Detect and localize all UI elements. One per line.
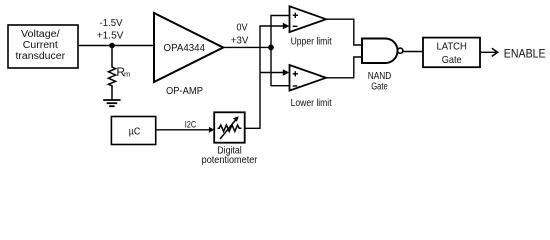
svg-text:Voltage/: Voltage/ bbox=[21, 29, 60, 40]
svg-text:Upper limit: Upper limit bbox=[291, 36, 332, 47]
svg-text:OPA4344: OPA4344 bbox=[164, 42, 206, 54]
svg-text:OP-AMP: OP-AMP bbox=[166, 85, 203, 97]
comparator upper limit bbox=[290, 6, 327, 32]
svg-text:Gate: Gate bbox=[371, 81, 388, 92]
comparator lower limit bbox=[290, 65, 327, 91]
svg-text:transducer: transducer bbox=[16, 51, 66, 62]
op-amp U1 OPA4344 bbox=[154, 13, 223, 82]
wire NAND output to latch bbox=[403, 51, 423, 53]
svg-text:m: m bbox=[124, 69, 130, 78]
node junction at Rm tap bbox=[109, 43, 115, 49]
wire op-amp output to signal node bbox=[222, 46, 271, 48]
wire latch output with arrowhead bbox=[480, 48, 498, 56]
label NAND Gate bbox=[368, 71, 392, 92]
svg-text:0V: 0V bbox=[237, 23, 248, 34]
wire threshold branch to lower comparator bbox=[260, 72, 285, 74]
ground bbox=[103, 100, 120, 106]
transducer block bbox=[8, 25, 78, 68]
wire transducer to op-amp input bbox=[78, 45, 154, 47]
svg-text:LATCH: LATCH bbox=[436, 41, 467, 53]
wire I2C from microcontroller to potentiometer bbox=[156, 127, 215, 133]
arrowhead into lower comparator plus input bbox=[283, 69, 290, 76]
microcontroller block bbox=[111, 117, 155, 145]
svg-text:ENABLE: ENABLE bbox=[504, 46, 546, 60]
svg-text:Lower limit: Lower limit bbox=[291, 98, 332, 109]
digital potentiometer bbox=[214, 112, 245, 142]
svg-text:+1.5V: +1.5V bbox=[97, 31, 124, 42]
wire lower comparator output to NAND bbox=[326, 57, 362, 78]
svg-text:+3V: +3V bbox=[231, 35, 249, 46]
wire upper comparator output to NAND bbox=[326, 19, 362, 45]
svg-text:Current: Current bbox=[23, 40, 58, 51]
label Digital potentiometer bbox=[202, 146, 258, 167]
arrowhead into upper comparator minus input bbox=[283, 23, 290, 30]
svg-text:µC: µC bbox=[129, 126, 141, 138]
wire threshold rail from potentiometer to comparator inputs bbox=[245, 26, 285, 128]
node junction signal rail bbox=[268, 45, 274, 51]
svg-text:I2C: I2C bbox=[185, 119, 197, 129]
NAND gate bbox=[362, 39, 403, 64]
svg-text:-1.5V: -1.5V bbox=[100, 18, 123, 29]
svg-text:Gate: Gate bbox=[442, 54, 462, 66]
resistor Rm bbox=[108, 46, 130, 101]
svg-text:potentiometer: potentiometer bbox=[202, 155, 258, 166]
latch gate block bbox=[423, 38, 480, 68]
wire signal rail to comparator inputs bbox=[271, 16, 290, 86]
